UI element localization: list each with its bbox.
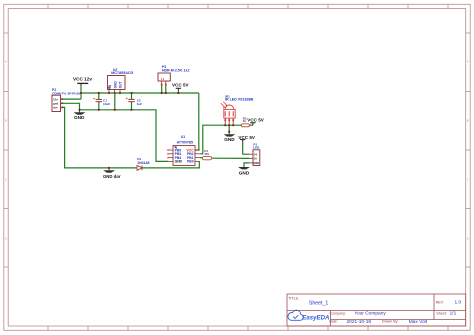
svg-text:Drawn By:: Drawn By: <box>382 320 399 324</box>
node C1 bottom <box>98 109 100 111</box>
pad P2 pin3 <box>61 106 63 108</box>
pad U2 pin3 <box>119 92 121 94</box>
node IR pin1 <box>224 124 226 126</box>
svg-text:PB0: PB0 <box>187 160 194 164</box>
node IR pin2 <box>228 124 230 126</box>
node U2 gnd <box>114 109 116 111</box>
svg-text:Sheet:: Sheet: <box>436 311 446 315</box>
svg-text:A: A <box>5 60 7 64</box>
power flag VCC 5V (pull-up) <box>247 118 265 126</box>
title block <box>287 294 466 326</box>
svg-text:MC7805ACG: MC7805ACG <box>111 71 133 75</box>
svg-text:1/1: 1/1 <box>450 310 457 316</box>
node header pin1 <box>161 92 163 94</box>
svg-text:470: 470 <box>204 152 209 156</box>
wire gnd net <box>62 103 79 110</box>
svg-text:+: + <box>93 97 95 101</box>
svg-text:Company:: Company: <box>330 311 346 315</box>
svg-text:Sheet_1: Sheet_1 <box>309 300 328 306</box>
svg-text:D: D <box>5 237 7 241</box>
wire U2 GND drop <box>114 93 116 110</box>
node gnd corner <box>78 109 80 111</box>
svg-text:Max Volt: Max Volt <box>409 319 428 325</box>
wire V5 feed <box>242 140 244 142</box>
IR receiver IR1 VS1838B <box>221 94 254 125</box>
svg-text:VCC 12v: VCC 12v <box>73 77 92 82</box>
svg-text:GND: GND <box>74 115 85 120</box>
pad U2 pin2 <box>114 92 116 94</box>
svg-text:1uF: 1uF <box>137 102 143 106</box>
EasyEDA logo <box>288 310 330 321</box>
svg-text:DI: DI <box>254 157 257 161</box>
svg-text:B: B <box>467 119 469 123</box>
svg-text:GND: GND <box>253 161 259 165</box>
wire 5V drop to U1 VCC <box>195 93 199 150</box>
svg-text:C: C <box>467 178 469 182</box>
svg-text:C: C <box>5 178 7 182</box>
resistor R2 1k <box>241 116 249 126</box>
resistor R1 470 <box>202 149 211 160</box>
header P3 HDR-M-2.54_1x2 <box>158 65 189 86</box>
svg-text:VCC 5V: VCC 5V <box>172 82 190 87</box>
wire door net to PB0 <box>142 161 199 168</box>
svg-text:REV:: REV: <box>436 300 444 304</box>
node C2 top <box>130 92 132 94</box>
wire PB1 to R1 to DI <box>200 157 203 159</box>
connector P2 CONN-TH_3P-P5.00 <box>52 88 80 111</box>
ground GND (P1) <box>238 167 250 175</box>
svg-text:LED: LED <box>253 146 260 150</box>
wire VCC12 stem <box>80 83 82 86</box>
svg-text:IR LED VS1838B: IR LED VS1838B <box>225 97 254 101</box>
node IR gnd <box>228 131 230 133</box>
node 12V flag <box>80 92 82 94</box>
svg-text:Date:: Date: <box>329 320 338 324</box>
svg-text:1.0: 1.0 <box>455 300 462 306</box>
svg-text:HDR-M-2.54_1x2: HDR-M-2.54_1x2 <box>162 68 189 72</box>
svg-text:OUT: OUT <box>119 82 123 89</box>
wire main top rail y=93 <box>81 92 199 94</box>
wire GND rail y=109.8 <box>80 110 169 162</box>
svg-text:1k: 1k <box>243 119 247 123</box>
wire IR out to PB2 <box>200 125 242 154</box>
svg-text:B: B <box>5 119 7 123</box>
wire IR gnd drop <box>228 125 230 134</box>
svg-text:Your Company: Your Company <box>354 310 386 316</box>
svg-text:VCC 5V: VCC 5V <box>247 118 265 123</box>
power flag VCC 5V (regulator output) <box>172 82 190 93</box>
node IR pin3 <box>232 124 234 126</box>
wire 12v net <box>62 98 81 100</box>
wire header pin drops <box>161 86 163 94</box>
ground GND dor <box>103 168 121 179</box>
wire P1 gnd <box>244 163 249 167</box>
wire door net vertical <box>62 107 136 167</box>
svg-text:ATTINY85: ATTINY85 <box>177 140 193 144</box>
connector P1 LED <box>249 142 260 165</box>
svg-text:1 2: 1 2 <box>161 78 165 81</box>
svg-text:GND: GND <box>113 81 117 89</box>
svg-text:A: A <box>467 60 469 64</box>
node C1 top <box>98 92 100 94</box>
svg-text:+: + <box>126 97 128 101</box>
capacitor C1 10uF <box>93 93 110 110</box>
junction dots <box>78 92 234 169</box>
svg-text:GND: GND <box>224 137 235 142</box>
svg-text:1N4148: 1N4148 <box>137 161 149 165</box>
node C2 bottom <box>130 109 132 111</box>
ground GND (input) <box>74 110 86 120</box>
svg-text:GND: GND <box>175 160 183 164</box>
svg-text:U1: U1 <box>181 135 185 139</box>
power flag VCC 5V (P1) <box>238 135 256 140</box>
svg-text:GND dor: GND dor <box>103 174 121 179</box>
svg-text:EasyEDA: EasyEDA <box>302 315 329 322</box>
wire R2 to flag <box>250 124 253 126</box>
capacitor C2 1uF <box>126 93 143 110</box>
svg-text:TITLE:: TITLE: <box>288 296 299 300</box>
svg-text:10uF: 10uF <box>103 102 110 106</box>
MCU U1 ATTINY85 <box>167 135 200 165</box>
svg-text:D: D <box>467 237 469 241</box>
node 5V flag <box>177 92 179 94</box>
power flag VCC 12v <box>73 77 92 84</box>
regulator U2 MC7805ACG <box>108 68 134 93</box>
ground GND (IR) <box>224 134 236 142</box>
svg-text:2021-10-18: 2021-10-18 <box>347 319 372 325</box>
diode D1 1N4148 <box>137 157 150 170</box>
pad P2 pin1 <box>61 98 63 100</box>
pad P2 pin2 <box>61 102 63 104</box>
node header pin2 <box>165 92 167 94</box>
node gnd dor <box>108 167 110 169</box>
svg-text:GND: GND <box>239 170 250 175</box>
pad U2 pin1 <box>108 92 110 94</box>
